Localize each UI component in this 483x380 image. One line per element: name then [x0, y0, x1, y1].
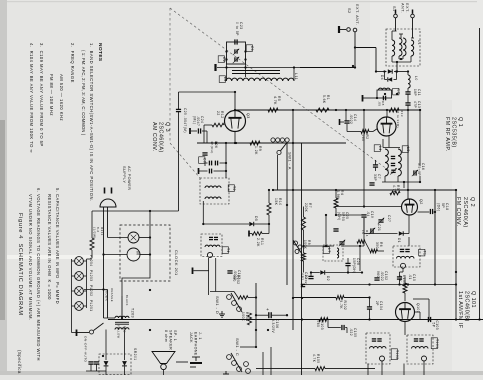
svg-text:SW1 - D: SW1 - D: [215, 296, 220, 314]
wire: [225, 143, 227, 178]
svg-text:2.2K: 2.2K: [256, 238, 260, 247]
svg-text:33P: 33P: [373, 174, 377, 181]
wire: [340, 121, 344, 123]
svg-text:D5: D5: [254, 216, 258, 221]
T203 core: [115, 321, 129, 323]
mid return rail wire: [302, 284, 456, 286]
svg-text:2P: 2P: [375, 301, 379, 306]
svg-text:(CH): (CH): [337, 212, 341, 221]
wire: [414, 311, 420, 313]
band switch bus wire 2: [292, 110, 294, 331]
wire junction: [419, 109, 421, 111]
wire: [396, 62, 398, 72]
wire: [107, 290, 109, 319]
diode D4b: [388, 77, 392, 81]
switch SW1-A contact 1: [271, 138, 275, 142]
gang junction dots: [225, 50, 227, 52]
wire: [91, 250, 93, 258]
T102 caps: [372, 338, 376, 340]
lamp bus to cord wire: [84, 289, 108, 291]
resistor R105: [315, 367, 325, 371]
svg-text:0 to 5P: 0 to 5P: [235, 22, 239, 36]
svg-text:(D6): (D6): [437, 203, 441, 211]
svg-text:C25 .0047(M): C25 .0047(M): [183, 108, 187, 133]
wire: [408, 237, 410, 246]
wire: [176, 361, 188, 363]
L7 dashed box: [323, 245, 343, 261]
pilot lamp PL203: [75, 272, 84, 281]
svg-text:(ML): (ML): [192, 116, 196, 124]
svg-text:5P: 5P: [432, 323, 436, 328]
capacitor C25: [176, 108, 181, 110]
T1 box label: [419, 249, 425, 256]
power transformer T203 secondary coil: [115, 328, 129, 330]
lamp bus wires: [71, 259, 73, 308]
wire junction: [301, 318, 303, 320]
wire stub: [381, 361, 383, 375]
wire: [304, 245, 335, 247]
switch contact extra 2: [246, 369, 251, 374]
svg-text:8 ohm: 8 ohm: [164, 330, 168, 342]
capacitor C8: [382, 96, 384, 101]
T102 box label: [391, 349, 397, 360]
svg-text:AM 520 — 1620 KHz: AM 520 — 1620 KHz: [59, 74, 64, 121]
rectifier SR201 dashed box: [99, 354, 131, 375]
wire junction: [335, 109, 337, 111]
svg-text:L0: L0: [414, 76, 418, 81]
capacitor C10: [391, 162, 395, 164]
wire junction: [292, 142, 294, 144]
wire: [163, 370, 165, 375]
wire: [256, 314, 268, 316]
Q1 lead wires: [382, 139, 384, 148]
Q2 base wire: [336, 206, 402, 208]
coil L3: [398, 149, 401, 176]
wire: [215, 258, 217, 292]
svg-text:Q 1: Q 1: [457, 117, 463, 127]
resistor R4: [334, 198, 338, 208]
switch SW1-A contact 2: [276, 138, 280, 142]
capacitor C104: [367, 306, 372, 308]
wire Q2 base feed: [363, 132, 365, 207]
switch SW1-B contact 2: [298, 245, 302, 249]
trimmer capacitor C16: [413, 170, 415, 175]
svg-text:PL203: PL203: [89, 270, 93, 281]
switch SW1-A contact 4: [285, 138, 289, 142]
antenna coil L11: [226, 78, 294, 81]
svg-text:47P: 47P: [413, 101, 417, 108]
resistor R14: [357, 240, 365, 244]
ground: [219, 311, 225, 317]
capacitor C12: [397, 276, 402, 278]
svg-text:Q 2: Q 2: [469, 197, 475, 207]
wire junction: [215, 142, 217, 144]
svg-text:3. C109 MAY BE ANY VALUE FROM: 3. C109 MAY BE ANY VALUE FROM 0 TO 5P: [39, 43, 44, 147]
svg-text:3.3/25V: 3.3/25V: [271, 319, 275, 334]
wire junction: [267, 329, 269, 331]
ext ant S1 terminal 1: [394, 14, 398, 18]
wire junction: [359, 245, 361, 247]
T101 tap circle: [422, 356, 427, 361]
svg-text:15K: 15K: [274, 198, 278, 206]
wire: [311, 272, 320, 274]
svg-text:L4: L4: [378, 146, 382, 151]
L7 box label: [323, 247, 329, 254]
S2 terminal 1: [347, 28, 351, 32]
IF transformer T101 dashed box: [407, 335, 433, 364]
detector bus wire: [255, 283, 257, 330]
osc coil T4 dashed box: [201, 234, 222, 257]
svg-text:C27: C27: [387, 215, 391, 222]
wire: [359, 246, 361, 271]
band switch bus wire 1: [286, 144, 288, 286]
switch SW1-C contact 2: [232, 361, 237, 366]
C27 capacitor row: [208, 161, 210, 166]
svg-text:(0 to 33Ω): (0 to 33Ω): [396, 110, 400, 128]
clock motor circle: [127, 248, 140, 261]
audio bus wire: [301, 144, 303, 376]
L1 coil a: [392, 40, 395, 56]
coil L0: [408, 75, 410, 88]
svg-text:T2: T2: [232, 186, 236, 191]
svg-text:Q 101: Q 101: [470, 291, 476, 308]
switch contact extra 1: [244, 362, 249, 367]
wire junction: [455, 318, 457, 320]
capacitor C105: [341, 325, 343, 330]
C6 box label: [199, 157, 205, 164]
bias rail wire: [197, 142, 346, 144]
SW1-B arm: [293, 240, 302, 254]
AC plug: [100, 199, 116, 207]
svg-text:PL202: PL202: [89, 285, 93, 296]
svg-text:47K: 47K: [398, 275, 402, 282]
svg-text:ORANGE: ORANGE: [110, 288, 114, 302]
FM clipper wire: [376, 71, 387, 73]
wire junction: [272, 189, 274, 191]
svg-text:100K: 100K: [241, 312, 245, 322]
wire: [418, 211, 430, 213]
scan bottom edge shadow: [0, 371, 483, 375]
svg-text:(Specifica: (Specifica: [17, 350, 22, 374]
wire junction: [149, 289, 151, 291]
switch SW1-A common contact: [277, 150, 281, 154]
svg-text:L1: L1: [417, 40, 421, 45]
wire junction: [407, 283, 409, 285]
capacitor C23: [234, 39, 236, 44]
T101 caps: [414, 338, 418, 340]
tuner bottom wire: [382, 181, 420, 183]
resistor R11: [252, 232, 262, 236]
wire junction: [325, 214, 327, 216]
svg-text:6. VOLTAGE READINGS TO COMMON: 6. VOLTAGE READINGS TO COMMON GROUND (+)…: [36, 188, 41, 361]
wire: [354, 32, 356, 68]
capacitor C203: [94, 361, 99, 363]
svg-text:JACK: JACK: [189, 332, 193, 343]
B+ rail near top edge: [479, 28, 481, 319]
svg-text:5.6K: 5.6K: [322, 95, 326, 104]
svg-text:560: 560: [232, 275, 236, 282]
T2 box label: [228, 185, 234, 192]
switch SW1-D contact 1: [227, 295, 232, 300]
svg-text:PL201: PL201: [89, 300, 93, 311]
wire stub: [403, 364, 405, 376]
wire: [139, 237, 150, 239]
clock lamp circle: [128, 232, 139, 243]
wire: [270, 347, 272, 375]
switch SW1-C contact 1: [227, 355, 232, 360]
rectifier SR201 diode 1: [104, 361, 109, 366]
L1 coil b: [399, 38, 402, 56]
C29 capacitor row: [208, 169, 210, 174]
svg-text:SP- 1: SP- 1: [173, 330, 177, 341]
svg-text:FM RF AMP.: FM RF AMP.: [444, 117, 450, 152]
T4 coil: [205, 245, 220, 247]
svg-text:YELLOW: YELLOW: [117, 325, 121, 339]
svg-text:AC POWER: AC POWER: [127, 166, 131, 190]
wire junction: [301, 284, 303, 286]
wire junction: [352, 65, 354, 67]
ground: [223, 371, 229, 377]
svg-text:C2: C2: [222, 57, 226, 62]
paper lighter area right: [452, 0, 483, 375]
wire junction: [368, 283, 370, 285]
resistor R104: [403, 283, 407, 293]
wire stub: [367, 364, 369, 376]
resistor R7: [302, 217, 306, 230]
T101 box label: [431, 338, 437, 349]
svg-text:C21: C21: [377, 224, 381, 231]
svg-text:18P: 18P: [413, 89, 417, 96]
capacitor C19: [361, 214, 366, 216]
FM det transformer T1 dashed box: [393, 246, 420, 267]
wire: [325, 215, 327, 247]
svg-text:EXT. ANT.: EXT. ANT.: [355, 4, 359, 25]
svg-text:Q 3: Q 3: [164, 122, 170, 132]
clock return wire: [121, 296, 123, 318]
IF stage rail wire: [272, 189, 456, 191]
clock dashed box: [120, 225, 170, 281]
svg-text:ON-OFF-AUTO: ON-OFF-AUTO: [84, 336, 88, 363]
wire: [208, 258, 210, 295]
T4 tap circle: [207, 252, 212, 257]
diode D2: [320, 270, 324, 274]
diode D5: [249, 222, 253, 226]
S2 terminal 2: [353, 28, 357, 32]
coil L4: [385, 149, 388, 176]
svg-text:C1: C1: [250, 46, 254, 51]
svg-text:4.7K: 4.7K: [273, 96, 277, 105]
wire: [262, 352, 264, 375]
antenna tap box label: [219, 76, 225, 83]
wire junction: [149, 329, 151, 331]
trimmer capacitor C21: [370, 228, 372, 233]
coil L7: [337, 248, 339, 258]
scan top edge line: [7, 1, 477, 2]
wire junction: [478, 318, 480, 320]
svg-text:SW1 - C: SW1 - C: [235, 338, 240, 356]
svg-text:T101: T101: [435, 339, 439, 349]
wire: [226, 64, 228, 81]
svg-text:4.7K: 4.7K: [312, 354, 316, 363]
gang feed wire: [217, 67, 300, 69]
resistor R10: [267, 203, 271, 215]
IF transformer T2 dashed box: [200, 178, 229, 204]
wire: [363, 110, 365, 132]
capacitor C28: [345, 262, 350, 264]
T4 caps: [209, 236, 213, 238]
svg-text:D1: D1: [397, 238, 401, 243]
supply rail wire: [235, 109, 421, 111]
wire: [341, 245, 364, 247]
resistor R202: [238, 296, 248, 300]
resistor R13 on rail: [389, 108, 399, 112]
trimmer capacitor C27: [378, 219, 383, 221]
Q3 base feed wire: [179, 91, 236, 93]
AFC dashed vertical line: [169, 8, 171, 143]
svg-text:EXT.: EXT.: [405, 3, 409, 13]
resistor R3: [390, 191, 400, 195]
pilot lamp PL204: [75, 257, 84, 266]
wire junction: [286, 204, 288, 206]
wire: [240, 346, 256, 348]
wire: [191, 130, 197, 132]
svg-text:.02: .02: [300, 275, 304, 281]
svg-text:SPEAKER: SPEAKER: [168, 330, 172, 350]
T2 secondary coil: [205, 197, 221, 199]
wire junction: [455, 271, 457, 273]
svg-text:SUPPLY: SUPPLY: [122, 166, 126, 183]
trimmer capacitor C2: [234, 57, 236, 61]
wire: [327, 320, 329, 328]
L1 coil c: [403, 38, 406, 56]
svg-text:Q2: Q2: [419, 199, 423, 205]
svg-text:3.5~9P: 3.5~9P: [417, 163, 421, 176]
svg-text:Figure 4 SCHEMATIC DIAGRAM: Figure 4 SCHEMATIC DIAGRAM: [17, 213, 23, 316]
IF feed rail wire: [293, 297, 336, 299]
svg-text:2SC460(A): 2SC460(A): [462, 197, 468, 228]
SW1-D arm: [231, 293, 242, 312]
wire: [345, 110, 347, 121]
capacitor C110: [374, 277, 379, 279]
wire: [404, 277, 406, 283]
wire junction: [384, 93, 386, 95]
C2 box label: [218, 56, 224, 63]
ferrite rod core: [232, 70, 280, 72]
svg-text:960: 960: [376, 271, 380, 278]
wire junction: [255, 329, 257, 331]
resistor R8: [302, 253, 306, 261]
resistor R211: [90, 238, 94, 250]
svg-text:T203: T203: [131, 308, 135, 318]
svg-text:4P(CH): 4P(CH): [210, 141, 214, 154]
T102 coil: [370, 346, 387, 348]
svg-text:AM CONV.: AM CONV.: [151, 122, 157, 152]
IF transformer T102 dashed box: [366, 333, 390, 364]
svg-text:FM 88 — 108 MHz: FM 88 — 108 MHz: [49, 74, 54, 116]
wire junction: [335, 189, 337, 191]
svg-text:S2: S2: [347, 8, 351, 14]
svg-text:1st AM/FM IF: 1st AM/FM IF: [457, 291, 463, 329]
resistor R9 on rail: [250, 141, 260, 145]
switch SW1-A contact 3: [280, 138, 284, 142]
capacitor C9: [391, 155, 395, 157]
capacitor C24: [197, 128, 199, 133]
switch SW1-B contact 3: [295, 250, 299, 254]
svg-text:D2: D2: [326, 276, 330, 281]
wire: [268, 190, 270, 203]
L1 coil d: [411, 40, 414, 56]
scan left edge shadow: [0, 0, 7, 375]
svg-text:NOTES: NOTES: [97, 43, 103, 62]
capacitor C103: [427, 317, 429, 322]
svg-text:Q101: Q101: [416, 303, 420, 313]
capacitor C7: [373, 164, 378, 166]
svg-text:T1: T1: [423, 251, 427, 256]
capacitor C106 electrolytic: [268, 312, 270, 318]
pilot lamp PL202: [75, 287, 84, 296]
wire: [105, 330, 107, 361]
bottom bus wire: [256, 368, 315, 370]
capacitor C202: [301, 283, 305, 285]
wire: [402, 268, 404, 272]
wire junction: [407, 189, 409, 191]
svg-text:4.7K: 4.7K: [339, 301, 343, 310]
wire: [407, 72, 409, 76]
capacitor C14: [344, 120, 349, 122]
transistor Q1: [377, 117, 396, 136]
wire: [336, 214, 364, 216]
svg-text:560: 560: [316, 321, 320, 328]
svg-text:.0022: .0022: [349, 114, 353, 124]
L1 wiring: [391, 31, 393, 40]
svg-text:2SC460(A): 2SC460(A): [157, 122, 163, 153]
IF rail wire: [455, 190, 457, 320]
wire junction: [325, 245, 327, 247]
resistor R2: [361, 130, 369, 134]
wire: [103, 298, 105, 318]
switch SW1-D contact 3: [237, 307, 242, 312]
svg-text:+: +: [265, 308, 270, 311]
wire junction: [455, 283, 457, 285]
wire junction: [292, 297, 294, 299]
svg-text:Q3: Q3: [246, 113, 250, 119]
wire: [375, 160, 377, 165]
resistor R103: [319, 318, 328, 322]
earphone jack symbol: [190, 362, 202, 364]
T4 box label: [222, 247, 228, 254]
wire to clock motor: [102, 253, 104, 255]
wire: [368, 296, 370, 298]
svg-text:FM CONV.: FM CONV.: [455, 197, 461, 226]
svg-text:1.2K: 1.2K: [254, 146, 258, 155]
trimmer capacitor C26: [339, 241, 344, 243]
trimmer capacitor C1: [234, 49, 236, 53]
wire: [408, 215, 410, 234]
svg-text:2. FREQ RANGE: 2. FREQ RANGE: [70, 43, 75, 83]
wire: [250, 233, 253, 235]
svg-text:J- 1: J- 1: [198, 332, 202, 340]
svg-text:RESISTANCE VALUES ARE IN OHM: RESISTANCE VALUES ARE IN OHM K = 1000: [47, 194, 52, 300]
T101 coil: [412, 346, 429, 348]
wire stub: [423, 361, 425, 375]
capacitor C201: [88, 361, 93, 363]
switch SW1-D contact 2: [232, 301, 237, 306]
C1 box label: [246, 45, 252, 52]
capacitor C22: [308, 275, 313, 277]
svg-text:PL204: PL204: [89, 255, 93, 266]
svg-text:SW1 - A: SW1 - A: [288, 152, 293, 170]
resistor R102: [336, 296, 344, 300]
